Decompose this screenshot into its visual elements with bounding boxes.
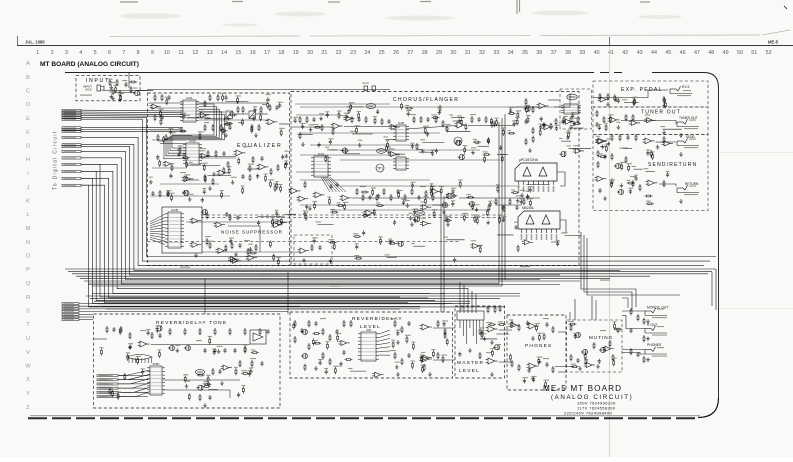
label value-rl275	[411, 360, 416, 361]
capacitor C448	[520, 200, 523, 205]
wire w-ch2150	[496, 204, 522, 206]
wire chrow-1	[300, 106, 560, 108]
resistor R358	[224, 123, 232, 125]
resistor R31	[204, 174, 206, 181]
wire chrow-2	[296, 114, 340, 116]
resistor R396	[374, 117, 376, 124]
label mu v1	[600, 330, 606, 331]
svg-text:Z: Z	[26, 405, 30, 411]
noise sub box	[294, 235, 332, 264]
pot VR5	[195, 370, 204, 375]
wire hbus drop1	[715, 269, 717, 310]
label value-ch2177	[514, 222, 518, 223]
resistor R251	[511, 320, 513, 327]
transistor Q31	[574, 332, 581, 337]
label value-ch98	[445, 124, 451, 125]
wire cn3-4	[118, 387, 148, 389]
resistor R437	[405, 107, 413, 109]
wire eq-feed-2	[81, 111, 183, 114]
op-amp IC11A	[289, 188, 301, 194]
resistor R201	[106, 326, 108, 333]
ground gnd-ch2153	[377, 194, 381, 198]
wire w-eq15	[187, 117, 211, 119]
wire hbus-8	[90, 298, 500, 300]
capacitor C577	[339, 362, 342, 367]
ground gnd-ch91	[421, 149, 425, 153]
label value-eq14	[263, 174, 267, 175]
op-amp IC uPC4572HA	[515, 158, 557, 192]
label rt v2	[196, 340, 202, 341]
label value-ch133	[357, 111, 361, 112]
scanner streak right 2	[719, 308, 793, 310]
label bus tag2	[260, 273, 270, 274]
wire w-chx373	[497, 154, 508, 156]
resistor R302	[242, 187, 244, 194]
svg-text:K: K	[26, 199, 30, 205]
resistor R635	[333, 243, 335, 250]
resistor R29	[252, 156, 254, 163]
svg-text:MUTING: MUTING	[589, 335, 613, 340]
IC IC61	[180, 96, 199, 122]
test point TP2	[454, 137, 462, 145]
svg-text:21: 21	[321, 50, 327, 56]
op-amp U517	[662, 141, 673, 146]
wire rt top	[94, 338, 107, 340]
wire w-to410	[662, 128, 681, 130]
label value-eqx358	[158, 109, 163, 110]
wire vbus A	[88, 122, 499, 283]
resistor R42	[229, 214, 231, 221]
resistor R603	[481, 331, 483, 338]
transistor Q15	[614, 163, 621, 168]
label value-ml298	[480, 327, 484, 328]
resistor R30	[227, 161, 229, 168]
resistor R41	[206, 212, 208, 219]
label value-eqx346	[252, 115, 256, 116]
label value-sr220	[599, 154, 603, 155]
resistor R141	[563, 116, 565, 123]
resistor R510	[652, 153, 654, 160]
svg-text:G: G	[26, 144, 30, 150]
transistor Q21	[168, 345, 175, 350]
resistor R43	[206, 238, 208, 245]
connector CN1-16	[62, 170, 81, 172]
resistor R156	[625, 114, 627, 121]
ground ch3	[446, 222, 450, 226]
IC8 pin fan	[379, 330, 390, 355]
wire eqrow-3	[152, 139, 186, 141]
resistor R231	[394, 320, 396, 327]
label ns v1	[205, 236, 211, 237]
capacitor C1	[111, 90, 114, 95]
resistor R621	[571, 366, 579, 368]
connector CN3-3	[97, 383, 118, 385]
resistor R705	[609, 116, 611, 123]
connector CN1-9	[62, 130, 81, 132]
wire ch row2	[406, 126, 457, 130]
label value-chb333	[353, 233, 358, 234]
ground gnd-ch2183	[486, 220, 490, 224]
resistor R413	[484, 156, 486, 163]
svg-text:IC61: IC61	[186, 96, 193, 100]
label value-rt256	[146, 329, 151, 330]
capacitor C628	[598, 359, 601, 364]
capacitor C638	[355, 244, 358, 249]
capacitor C210	[208, 395, 211, 400]
connector CN3-6	[97, 396, 118, 398]
label value-eq9	[227, 166, 231, 167]
label ch v4	[360, 186, 366, 187]
resistor R664	[516, 118, 518, 125]
resistor R13	[154, 114, 156, 121]
svg-text:5: 5	[94, 50, 97, 56]
ground gnd-sr226	[601, 145, 605, 149]
resistor R233	[394, 352, 396, 359]
resistor R332	[179, 130, 187, 132]
ground gnd-ch2159	[516, 199, 520, 203]
op-amp U543	[221, 365, 232, 370]
label value-rl294	[405, 335, 411, 336]
label value-ph317	[534, 323, 539, 324]
wire w-inp414	[135, 90, 153, 92]
resistor R612	[538, 334, 540, 341]
label value-eq15	[185, 115, 190, 116]
connector CN2-5	[62, 313, 79, 315]
op-amp IC3A	[182, 176, 194, 182]
connector CN1-10	[62, 136, 81, 138]
label value-rl273	[420, 365, 425, 366]
wire eqrow-7	[150, 195, 230, 197]
transistor Q362	[201, 209, 208, 214]
wire bus-extra-4	[81, 185, 505, 307]
label eq v3	[262, 104, 267, 105]
resistor R460	[440, 187, 442, 194]
SEND/RETURN block box	[593, 135, 708, 211]
capacitor C505	[542, 122, 545, 127]
ground gnd-ch2177	[514, 225, 518, 229]
capacitor C562	[129, 344, 132, 349]
label ch v5	[420, 186, 426, 187]
resistor R473	[466, 196, 474, 198]
capacitor C101	[312, 117, 315, 122]
ground gnd-chx381	[437, 111, 441, 115]
label value-ch116	[512, 120, 517, 121]
resistor R645	[204, 175, 206, 182]
op-amp U369	[271, 222, 282, 227]
resistor R692	[344, 203, 346, 210]
resistor R20	[260, 106, 262, 113]
connector CN1-11	[62, 144, 81, 146]
capacitor C106	[329, 184, 332, 189]
resistor R202	[120, 326, 122, 333]
schematic right border	[718, 88, 720, 398]
resistor R303	[179, 147, 181, 154]
wire bus-extra-2	[81, 171, 435, 300]
label value-sr213	[604, 144, 609, 145]
label value-to410	[660, 126, 665, 127]
label value-ch2168	[423, 196, 428, 197]
label value-rl283	[325, 341, 329, 342]
label value-ch118	[471, 147, 476, 148]
input jack J1	[97, 85, 104, 91]
resistor R350	[182, 157, 190, 159]
svg-text:IC7: IC7	[460, 307, 465, 311]
wire w-eqx351	[202, 164, 221, 166]
resistor R132	[525, 138, 527, 145]
label value-eq44	[184, 174, 190, 175]
resistor R33	[249, 174, 251, 181]
resistor R122	[425, 190, 427, 197]
capacitor C614	[532, 377, 535, 382]
resistor R574	[312, 338, 314, 345]
svg-text:38: 38	[565, 50, 571, 56]
wire net-11	[81, 145, 620, 271]
resistor R552	[203, 383, 211, 385]
resistor R106	[365, 116, 367, 123]
resistor R264	[570, 354, 572, 361]
wire hbus-12	[106, 308, 400, 310]
capacitor C425	[317, 142, 320, 147]
connector CN1-14	[62, 157, 81, 159]
wire w-ch109	[477, 145, 489, 147]
label rt v3	[250, 358, 256, 359]
wire w-inp415	[112, 91, 135, 93]
label value-chb339	[411, 243, 415, 244]
capacitor C451	[303, 212, 306, 217]
connector CN3-5	[97, 391, 118, 393]
svg-text:INPUT: INPUT	[86, 78, 110, 84]
label value-ch94	[501, 127, 506, 128]
connector CN1-7	[62, 127, 81, 129]
wire eq out	[279, 123, 289, 125]
svg-text:11: 11	[178, 50, 184, 56]
label value-rl285	[421, 352, 425, 353]
label value-sr214	[596, 136, 600, 137]
resistor R395	[507, 132, 515, 134]
svg-text:39: 39	[579, 50, 585, 56]
resistor R265	[585, 358, 587, 365]
wire w-chb334	[387, 257, 397, 259]
svg-text:M5216L: M5216L	[522, 206, 534, 210]
resistor R208	[214, 328, 216, 335]
op-amp U308	[199, 153, 210, 158]
label value-ph307	[544, 380, 549, 381]
op-amp IC7A	[486, 326, 498, 332]
ground ns1	[234, 252, 238, 256]
resistor R502	[550, 123, 552, 130]
label value-ep399	[622, 99, 627, 100]
connector CN2-4	[62, 311, 79, 313]
label value-ch2174	[526, 191, 532, 192]
ground rl1	[314, 366, 318, 370]
label value-eq39	[182, 113, 186, 114]
resistor R215	[251, 360, 253, 367]
ground ph2	[531, 376, 535, 380]
resistor R143	[577, 116, 579, 123]
label value-ch2152	[337, 202, 341, 203]
op-amp IC12A	[364, 210, 376, 216]
REVERB TONE block box	[94, 314, 281, 408]
resistor R446	[526, 106, 528, 113]
resistor R206	[184, 328, 186, 335]
resistor R367	[273, 254, 275, 261]
resistor R131	[555, 118, 557, 125]
wire vr8	[548, 99, 560, 101]
label value-mu329	[568, 321, 573, 322]
capacitor C103	[387, 119, 390, 124]
label value-chx372	[383, 136, 388, 137]
wire IC61-IC62 loops	[172, 104, 214, 148]
capacitor C404	[301, 124, 304, 129]
pot VR6	[416, 211, 425, 216]
resistor R695	[472, 203, 474, 210]
capacitor C501	[571, 113, 574, 118]
resistor R586	[421, 356, 423, 363]
resistor R234	[401, 358, 403, 365]
wire w-rl278	[350, 370, 366, 372]
wire eq-feed-7	[81, 127, 183, 129]
resistor R625	[613, 359, 615, 366]
svg-text:29: 29	[436, 50, 442, 56]
capacitor C478	[445, 217, 448, 222]
resistor R587	[293, 322, 295, 329]
label value-ch84	[516, 110, 521, 111]
label value-chc423	[556, 240, 560, 241]
resistor R323	[280, 185, 282, 192]
resistor R630	[389, 242, 397, 244]
ground gnd-sr207	[656, 145, 660, 149]
label value-eq26	[221, 93, 227, 94]
schematic bottom-right corner	[698, 398, 719, 418]
wire cn2-5	[79, 313, 93, 315]
svg-text:R: R	[26, 295, 30, 301]
op-amp U370	[275, 220, 286, 225]
label value-inp414	[133, 87, 137, 88]
transistor Q464	[413, 217, 420, 222]
capacitor C382	[294, 118, 297, 123]
resistor R406	[386, 145, 388, 152]
capacitor C12	[160, 115, 163, 120]
pot VR2	[447, 194, 456, 199]
label value-ch132	[566, 130, 570, 131]
resistor R624	[584, 353, 586, 360]
ground input 1	[111, 97, 115, 101]
label value-eq48	[170, 193, 175, 194]
label value-sr215	[607, 138, 612, 139]
wire w-ch136	[347, 106, 364, 108]
resistor R443	[460, 118, 462, 125]
wire chrow-4	[310, 144, 420, 146]
wire jack loop	[622, 298, 628, 308]
svg-text:S: S	[26, 309, 30, 315]
resistor R11	[154, 94, 156, 101]
ground gnd-inp416	[109, 85, 113, 89]
resistor R351	[221, 191, 223, 198]
label value-mu326	[573, 333, 577, 334]
ground return	[679, 199, 683, 203]
resistor R447	[431, 190, 433, 197]
resistor R3	[119, 90, 121, 97]
resistor R361	[269, 240, 271, 247]
label value-ch3204	[572, 118, 577, 119]
VR8A block box	[560, 89, 592, 129]
capacitor C488	[305, 205, 308, 210]
resistor R563	[127, 354, 129, 361]
resistor R405	[332, 128, 334, 135]
label value-rt233	[243, 345, 247, 346]
capacitor C261	[576, 358, 579, 363]
op-amp IC11C	[340, 195, 352, 201]
svg-text:TUNER OUT: TUNER OUT	[679, 116, 698, 120]
label value-ch3200	[570, 125, 576, 126]
capacitor C426	[487, 138, 490, 143]
resistor R342	[276, 182, 278, 189]
label value-mu325	[612, 358, 617, 359]
label value-ch2176	[475, 216, 480, 217]
resistor R310	[160, 118, 162, 125]
svg-text:52: 52	[766, 50, 772, 56]
label value-chb334	[385, 254, 390, 255]
op-amp U364	[228, 257, 239, 262]
capacitor C202	[158, 333, 161, 338]
resistor R561	[117, 393, 119, 400]
label value-mu323	[613, 321, 617, 322]
capacitor C591	[442, 322, 445, 327]
op-amp U469	[430, 189, 441, 194]
resistor R151	[599, 93, 601, 100]
capacitor C571	[325, 369, 328, 374]
resistor R540	[184, 375, 186, 382]
resistor R125	[495, 198, 497, 205]
connector CN2-2	[62, 305, 79, 307]
capacitor C17	[260, 156, 263, 161]
op-amp IC5A	[138, 341, 150, 347]
op-amp IC M5216L	[518, 206, 560, 240]
label value-chb332	[378, 236, 383, 237]
label value-ch144	[420, 139, 425, 140]
resistor R163	[597, 161, 599, 168]
resistor R686	[511, 192, 519, 194]
resistor R334	[267, 101, 269, 108]
capacitor C16	[222, 151, 225, 156]
resistor R15	[165, 134, 167, 141]
op-amp U419	[563, 119, 574, 124]
wire w-sr219	[645, 170, 654, 172]
wire w-sr218	[634, 168, 643, 170]
svg-text:O: O	[26, 254, 31, 260]
label value-eq53	[158, 140, 162, 141]
wire w-eq13	[172, 134, 192, 136]
resistor R46	[255, 244, 257, 251]
ground jack3	[646, 358, 650, 362]
label value-ml306	[498, 321, 504, 322]
capacitor C15	[228, 125, 231, 130]
capacitor C465	[393, 220, 396, 225]
wire cn2-7	[79, 319, 93, 321]
label value-eq42	[275, 181, 279, 182]
IC IC31	[311, 152, 331, 177]
resistor R221	[294, 320, 296, 327]
wire w-ch138	[453, 120, 463, 122]
ground tuner	[679, 133, 683, 137]
resistor R536	[137, 357, 139, 364]
label value-eqx347	[168, 128, 173, 129]
label value-ph319	[537, 356, 543, 357]
resistor R44	[231, 242, 233, 249]
BBD IC30	[393, 121, 409, 141]
resistor R546	[119, 328, 121, 335]
capacitor C21	[236, 215, 239, 220]
